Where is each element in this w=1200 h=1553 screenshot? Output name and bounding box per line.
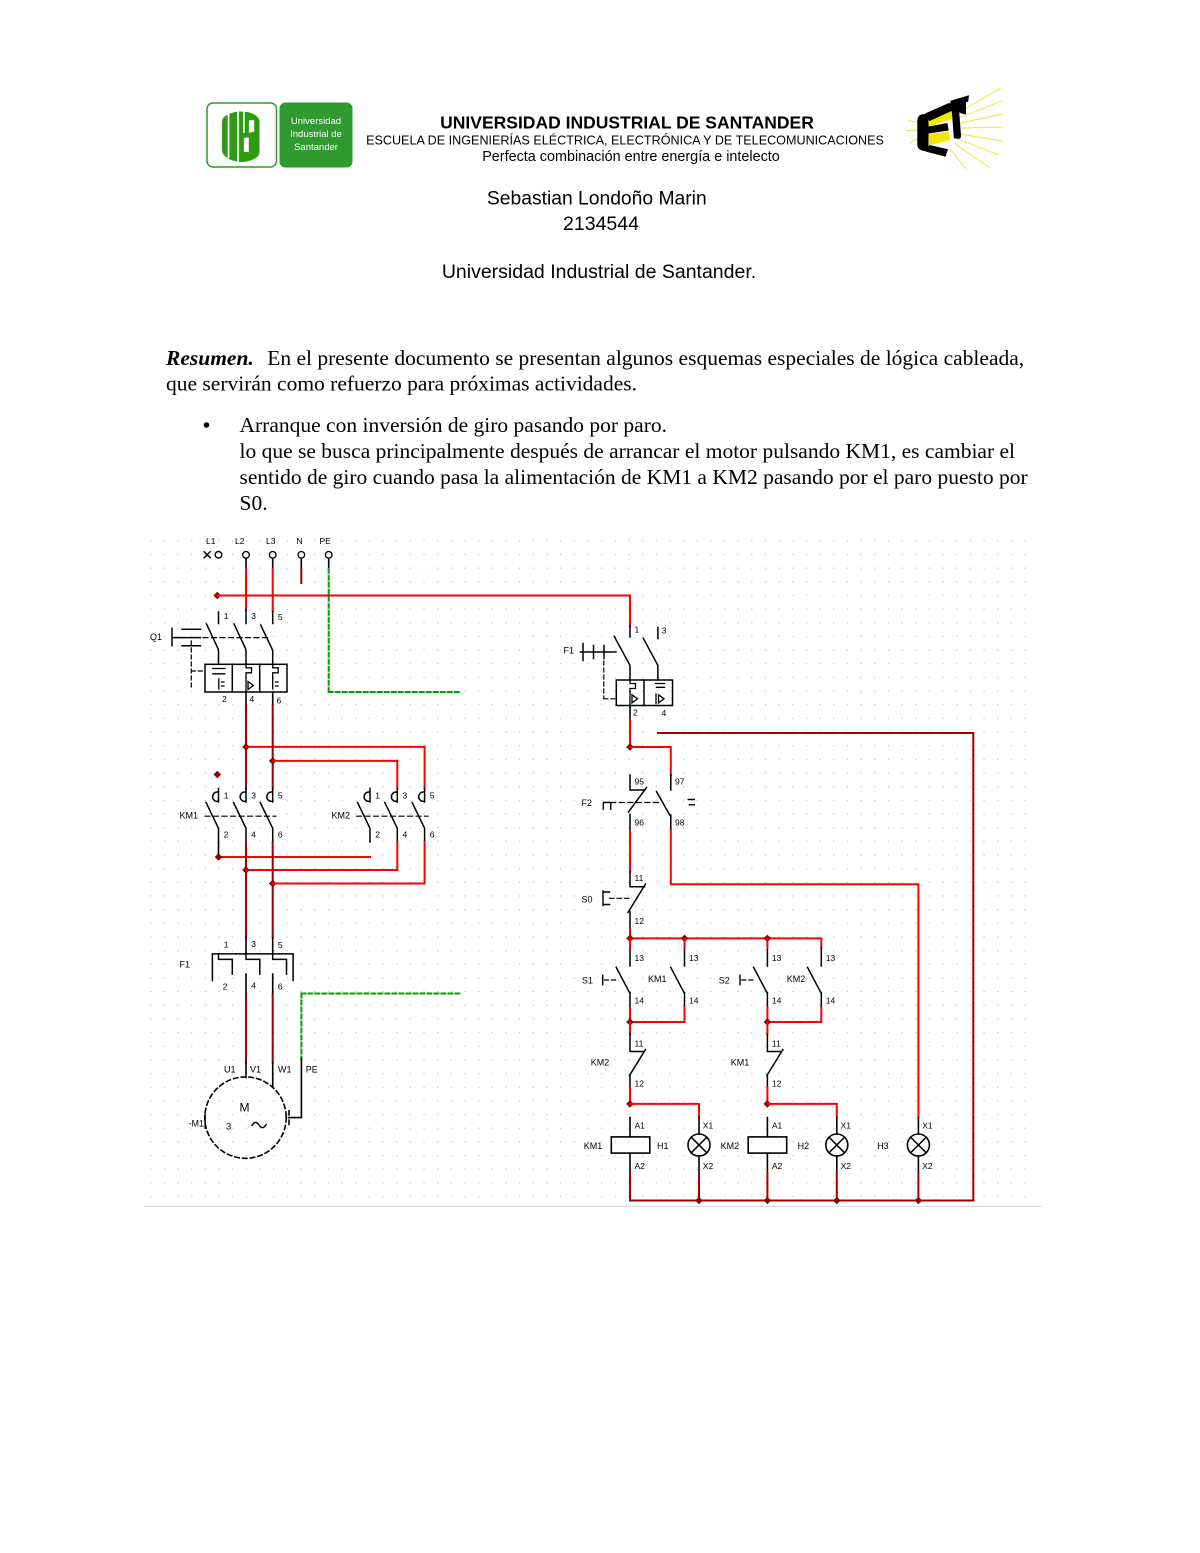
- wire F2-98 to H3 red: [671, 830, 919, 1118]
- wire PE green dashed horizontal lower: [301, 993, 461, 995]
- node E4: [915, 1197, 923, 1205]
- Q1 pole 1: [207, 612, 219, 664]
- wire: terminal stubs (black): [246, 559, 329, 569]
- aux contact KM2 13-14: [787, 948, 836, 1008]
- overload relay F1: [180, 937, 294, 994]
- svg-text:11: 11: [635, 873, 644, 883]
- svg-text:KM1: KM1: [648, 974, 667, 984]
- contactor KM2 main contacts: [332, 789, 435, 843]
- wire top rail red to control circuit: [217, 595, 630, 597]
- wire PE green dashed horizontal: [329, 691, 462, 693]
- svg-text:13: 13: [772, 953, 782, 963]
- S2 actuator: [739, 975, 741, 984]
- wire L3 red drop to Q1: [272, 569, 274, 612]
- svg-text:KM1: KM1: [731, 1058, 750, 1068]
- Q1 pole 3: [261, 612, 273, 665]
- S1 actuator: [602, 975, 604, 984]
- terminal L2: [243, 552, 250, 559]
- node B2: [681, 935, 689, 943]
- svg-text:V1: V1: [250, 1065, 261, 1075]
- node KM1-4: [242, 866, 250, 874]
- svg-text:ESCUELA DE INGENIERÍAS ELÉCTRI: ESCUELA DE INGENIERÍAS ELÉCTRICA, ELECTR…: [366, 133, 884, 148]
- wire H2-X2 dark red: [836, 1173, 838, 1201]
- F1 bottom pins black: [246, 974, 273, 994]
- wire KM2-A2 dark red: [766, 1173, 768, 1201]
- wire PE green dashed drop to motor: [300, 994, 302, 1059]
- svg-text:UNIVERSIDAD INDUSTRIAL DE SANT: UNIVERSIDAD INDUSTRIAL DE SANTANDER: [440, 113, 814, 133]
- F2 thermal marks: [688, 800, 694, 805]
- svg-text:6: 6: [278, 982, 283, 992]
- svg-text:3: 3: [251, 791, 256, 801]
- wire H1-X2 dark red: [698, 1173, 700, 1201]
- grid dots background: [145, 537, 1038, 1206]
- thermal contact F2: [582, 775, 695, 830]
- svg-text:S2: S2: [719, 976, 730, 986]
- svg-text:2: 2: [633, 708, 638, 718]
- lamp H2: [798, 1118, 852, 1173]
- S2 linkage dashes: [742, 979, 755, 981]
- node D1: [626, 1100, 634, 1108]
- F1 thermal element cell 2: [656, 684, 665, 704]
- svg-text:14: 14: [689, 996, 699, 1006]
- wire H3-X2 dark red: [917, 1173, 919, 1201]
- coil KM2: [721, 1118, 787, 1173]
- svg-text:95: 95: [635, 777, 645, 787]
- svg-text:H2: H2: [798, 1141, 810, 1151]
- F2 NC contact 95-96: [629, 775, 647, 830]
- svg-text:Q1: Q1: [150, 632, 162, 642]
- wire PE green dashed drop: [328, 569, 330, 692]
- svg-text:5: 5: [278, 940, 283, 950]
- Q1 handle: [172, 628, 201, 645]
- svg-text:A1: A1: [635, 1121, 646, 1131]
- svg-text:lo que se busca principalmente: lo que se busca principalmente después d…: [240, 439, 1016, 463]
- svg-text:A1: A1: [772, 1121, 783, 1131]
- svg-text:2: 2: [222, 694, 227, 704]
- wire return rail dark red: [658, 733, 973, 1201]
- wire branch to F2-97 red: [630, 747, 671, 775]
- pushbutton S1: [582, 938, 644, 1007]
- svg-text:Universidad: Universidad: [291, 116, 341, 127]
- Q1 thermal element cell 3: [273, 664, 279, 689]
- BODY TEXT: [165, 346, 1028, 515]
- svg-text:H3: H3: [877, 1141, 889, 1151]
- S2 NO contact 13-14: [754, 948, 768, 1008]
- S1 NO contact 13-14: [616, 948, 630, 1008]
- svg-text:6: 6: [278, 830, 283, 840]
- Q1 mechanical linkage dashes: [203, 637, 268, 639]
- Q1 trip unit box: [205, 664, 287, 692]
- coil KM1: [584, 1118, 650, 1173]
- svg-text:12: 12: [635, 916, 645, 926]
- terminal L1: [204, 552, 222, 559]
- svg-text:5: 5: [430, 791, 435, 801]
- Q1 pole 2: [234, 610, 246, 665]
- svg-text:Universidad Industrial de Sant: Universidad Industrial de Santander.: [442, 261, 756, 283]
- interlock contact KM1 11-12: [731, 1022, 783, 1089]
- svg-text:13: 13: [635, 953, 645, 963]
- svg-text:1: 1: [224, 611, 229, 621]
- svg-text:2: 2: [223, 982, 228, 992]
- KM1 linkage dashes: [205, 815, 276, 817]
- node E1: [695, 1197, 703, 1205]
- HEADER: [207, 88, 1003, 283]
- svg-text:6: 6: [277, 696, 282, 706]
- svg-text:4: 4: [250, 694, 255, 704]
- F1 heater element pole 1: [219, 954, 233, 974]
- pushbutton S0: [582, 872, 646, 930]
- svg-text:S1: S1: [582, 976, 593, 986]
- svg-text:N: N: [297, 536, 303, 546]
- svg-text:F1: F1: [564, 646, 575, 656]
- wire KM2-4 to node red: [246, 842, 397, 870]
- F2 reset symbol: [603, 803, 611, 810]
- svg-text:3: 3: [403, 791, 408, 801]
- node floating above KM1: [214, 771, 222, 779]
- node A: [626, 743, 634, 751]
- svg-text:96: 96: [635, 818, 645, 828]
- svg-text:KM2: KM2: [591, 1058, 610, 1068]
- node E2: [764, 1197, 772, 1205]
- KM2 pole 1-2: [358, 789, 371, 843]
- F1 trip linkage dashed: [604, 661, 617, 699]
- svg-text:PE: PE: [306, 1065, 318, 1075]
- svg-text:KM1: KM1: [180, 811, 199, 821]
- wire KM1-4 down dark red: [245, 842, 247, 937]
- svg-text:X2: X2: [841, 1161, 852, 1171]
- F1 pin labels: [223, 939, 283, 992]
- wire S1 loop rail red: [630, 1007, 685, 1022]
- svg-text:F1: F1: [180, 960, 191, 970]
- svg-text:Sebastian Londoño Marin: Sebastian Londoño Marin: [487, 189, 707, 210]
- wire S0-12 to rail red: [629, 930, 631, 938]
- wire F1-4 to motor V1 dark red: [245, 994, 247, 1062]
- lamp H3: [877, 1118, 933, 1173]
- svg-text:11: 11: [635, 1039, 644, 1049]
- F1 trip box: [616, 680, 672, 706]
- wire rail drop to F1 control red: [629, 596, 631, 626]
- svg-text:1: 1: [224, 791, 229, 801]
- node L1 rail start: [214, 592, 222, 600]
- motor circle: [205, 1077, 286, 1158]
- wire L2 red drop to Q1: [245, 569, 247, 610]
- wire Q1 pin4 stub black: [245, 692, 247, 706]
- KM2 linkage dashes: [357, 815, 429, 817]
- svg-text:3: 3: [251, 939, 256, 949]
- wire N stub (dark red): [300, 569, 302, 583]
- wire branch to H1 red: [630, 1104, 699, 1118]
- svg-text:PE: PE: [320, 536, 332, 546]
- F1 pole 2: [643, 628, 658, 681]
- wire mid rail red: [630, 938, 821, 947]
- wire branch to H2 red: [767, 1104, 836, 1118]
- svg-text:X1: X1: [703, 1121, 714, 1131]
- svg-text:2134544: 2134544: [563, 213, 639, 235]
- svg-text:1: 1: [224, 940, 229, 950]
- wire F1c-2 red to node: [629, 720, 631, 748]
- svg-text:3: 3: [226, 1122, 231, 1133]
- svg-text:4: 4: [403, 830, 408, 840]
- svg-text:que servirán como refuerzo par: que servirán como refuerzo para próximas…: [166, 372, 637, 396]
- svg-text:L2: L2: [235, 536, 245, 546]
- terminal PE: [325, 552, 332, 559]
- S1 linkage dashes: [605, 979, 619, 981]
- wire branch to KM2-3 red: [273, 761, 398, 789]
- wire F1c-2 stub black: [629, 706, 631, 720]
- F1 heater element pole 3: [273, 954, 287, 974]
- F1 top bracket: [212, 954, 293, 981]
- svg-text:L1: L1: [206, 536, 216, 546]
- F2 linkage dashes: [611, 802, 661, 804]
- terminal N: [298, 552, 305, 559]
- svg-text:X2: X2: [703, 1161, 714, 1171]
- svg-text:X2: X2: [922, 1161, 933, 1171]
- svg-text:W1: W1: [278, 1065, 292, 1075]
- wire branch to KM2-5 red: [246, 747, 425, 789]
- svg-text:12: 12: [772, 1079, 782, 1089]
- Q1 trip linkage dashed: [191, 641, 203, 690]
- svg-text:M: M: [240, 1101, 250, 1115]
- wire Q1-4 to KM1-3 dark red: [245, 706, 247, 789]
- svg-text:sentido de giro cuando pasa la: sentido de giro cuando pasa la alimentac…: [240, 465, 1028, 489]
- F1 pole 1: [614, 626, 630, 680]
- Q1 thermal element cell 1: [213, 669, 225, 690]
- svg-text:14: 14: [826, 996, 836, 1006]
- node D2: [764, 1100, 772, 1108]
- node KM1-6: [269, 880, 277, 888]
- contactor KM1 main contacts: [180, 789, 283, 843]
- faint bottom rule: [144, 1205, 1041, 1207]
- svg-text:4: 4: [251, 830, 256, 840]
- svg-text:2: 2: [375, 830, 380, 840]
- svg-text:S0.: S0.: [240, 491, 268, 515]
- wire KM2-6 to node red: [273, 842, 425, 884]
- motor M1: [189, 1077, 287, 1158]
- breaker F1 control: [564, 625, 673, 719]
- node C1: [626, 1018, 634, 1026]
- motor terminal labels: [224, 1065, 318, 1075]
- wire Q1 pin6 stub black: [272, 692, 274, 706]
- node C2: [764, 1018, 772, 1026]
- svg-text:H1: H1: [657, 1141, 669, 1151]
- node T2: [269, 757, 277, 765]
- svg-text:14: 14: [772, 996, 782, 1006]
- svg-text:12: 12: [635, 1079, 645, 1089]
- wire F2-96 to S0 red: [629, 830, 631, 872]
- wire KM2nc to coil node red: [629, 1087, 631, 1104]
- svg-text:13: 13: [826, 953, 836, 963]
- Q1 magnetic element cell 2: [246, 664, 254, 691]
- svg-text:S0: S0: [582, 895, 593, 905]
- svg-text:X1: X1: [841, 1121, 852, 1131]
- node B1: [626, 935, 634, 943]
- svg-text:X1: X1: [922, 1121, 933, 1131]
- svg-text:-M1: -M1: [189, 1119, 205, 1129]
- svg-text:14: 14: [635, 996, 645, 1006]
- svg-text:Perfecta combinación entre ene: Perfecta combinación entre energía e int…: [482, 149, 780, 165]
- terminal L3: [269, 552, 276, 559]
- F2 NO contact 97-98: [657, 775, 671, 830]
- svg-text:98: 98: [675, 818, 685, 828]
- wire KM1-6 down dark red: [272, 842, 274, 937]
- wire F1-6 to motor W1 dark red: [272, 994, 274, 1062]
- svg-text:1: 1: [635, 625, 640, 635]
- node KM1-2: [215, 853, 223, 861]
- svg-text:5: 5: [278, 791, 283, 801]
- node B3: [764, 935, 772, 943]
- S0 NC contact 11-12: [628, 872, 646, 930]
- svg-text:U1: U1: [224, 1065, 236, 1075]
- svg-text:Resumen. En el presente docume: Resumen. En el presente documento se pre…: [165, 346, 1024, 370]
- svg-text:KM2: KM2: [721, 1141, 740, 1151]
- svg-text:3: 3: [251, 611, 256, 621]
- F1 handle: [581, 644, 617, 661]
- F1 magnetic element cell 1: [630, 680, 638, 704]
- wire KM1-2 to KM2-2 red: [218, 842, 220, 857]
- svg-text:1: 1: [375, 791, 380, 801]
- svg-text:6: 6: [430, 830, 435, 840]
- F1 heater element pole 2: [246, 954, 260, 974]
- svg-text:A2: A2: [772, 1161, 783, 1171]
- F1 pin stubs black: [246, 937, 273, 954]
- KM1 pole 1-2: [206, 789, 219, 843]
- svg-text:KM2: KM2: [787, 974, 806, 984]
- svg-text:2: 2: [224, 830, 229, 840]
- node T1: [242, 743, 250, 751]
- lamp H1: [657, 1118, 713, 1173]
- motor tilde: [252, 1122, 266, 1127]
- KM1 pole 5-6: [260, 789, 273, 843]
- wire bottom rail dark red: [630, 1200, 973, 1202]
- svg-text:4: 4: [662, 708, 667, 718]
- node E3: [833, 1197, 841, 1205]
- svg-text:Industrial de: Industrial de: [290, 129, 342, 140]
- svg-text:KM2: KM2: [332, 811, 351, 821]
- svg-text:F2: F2: [582, 798, 593, 808]
- wire KM1nc to coil node red: [766, 1087, 768, 1104]
- S0 linkage dashes: [610, 897, 633, 899]
- breaker Q1: [150, 610, 287, 706]
- wire Q1-6 to KM1-5 dark red: [272, 706, 274, 789]
- KM2 pole 3-4: [385, 789, 398, 843]
- svg-text:4: 4: [251, 981, 256, 991]
- pushbutton S2: [719, 938, 782, 1007]
- svg-text:KM1: KM1: [584, 1141, 603, 1151]
- svg-text:11: 11: [772, 1039, 781, 1049]
- svg-text:Arranque con inversión de giro: Arranque con inversión de giro pasando p…: [240, 413, 667, 437]
- svg-text:13: 13: [689, 953, 699, 963]
- svg-text:97: 97: [675, 777, 685, 787]
- wire S2 loop rail red: [767, 1007, 821, 1022]
- interlock contact KM2 11-12: [591, 1022, 646, 1089]
- svg-text:L3: L3: [266, 536, 276, 546]
- svg-text:Santander: Santander: [294, 142, 338, 153]
- wire PE black drop to motor: [289, 1058, 302, 1124]
- S0 actuator: [603, 891, 610, 906]
- svg-text:A2: A2: [635, 1161, 646, 1171]
- aux contact KM1 13-14: [648, 938, 699, 1007]
- svg-text:5: 5: [278, 612, 283, 622]
- svg-text:3: 3: [662, 626, 667, 636]
- wire KM1-A2 dark red: [629, 1173, 631, 1201]
- KM1 pole 3-4: [234, 789, 247, 843]
- KM2 pole 5-6: [412, 789, 425, 843]
